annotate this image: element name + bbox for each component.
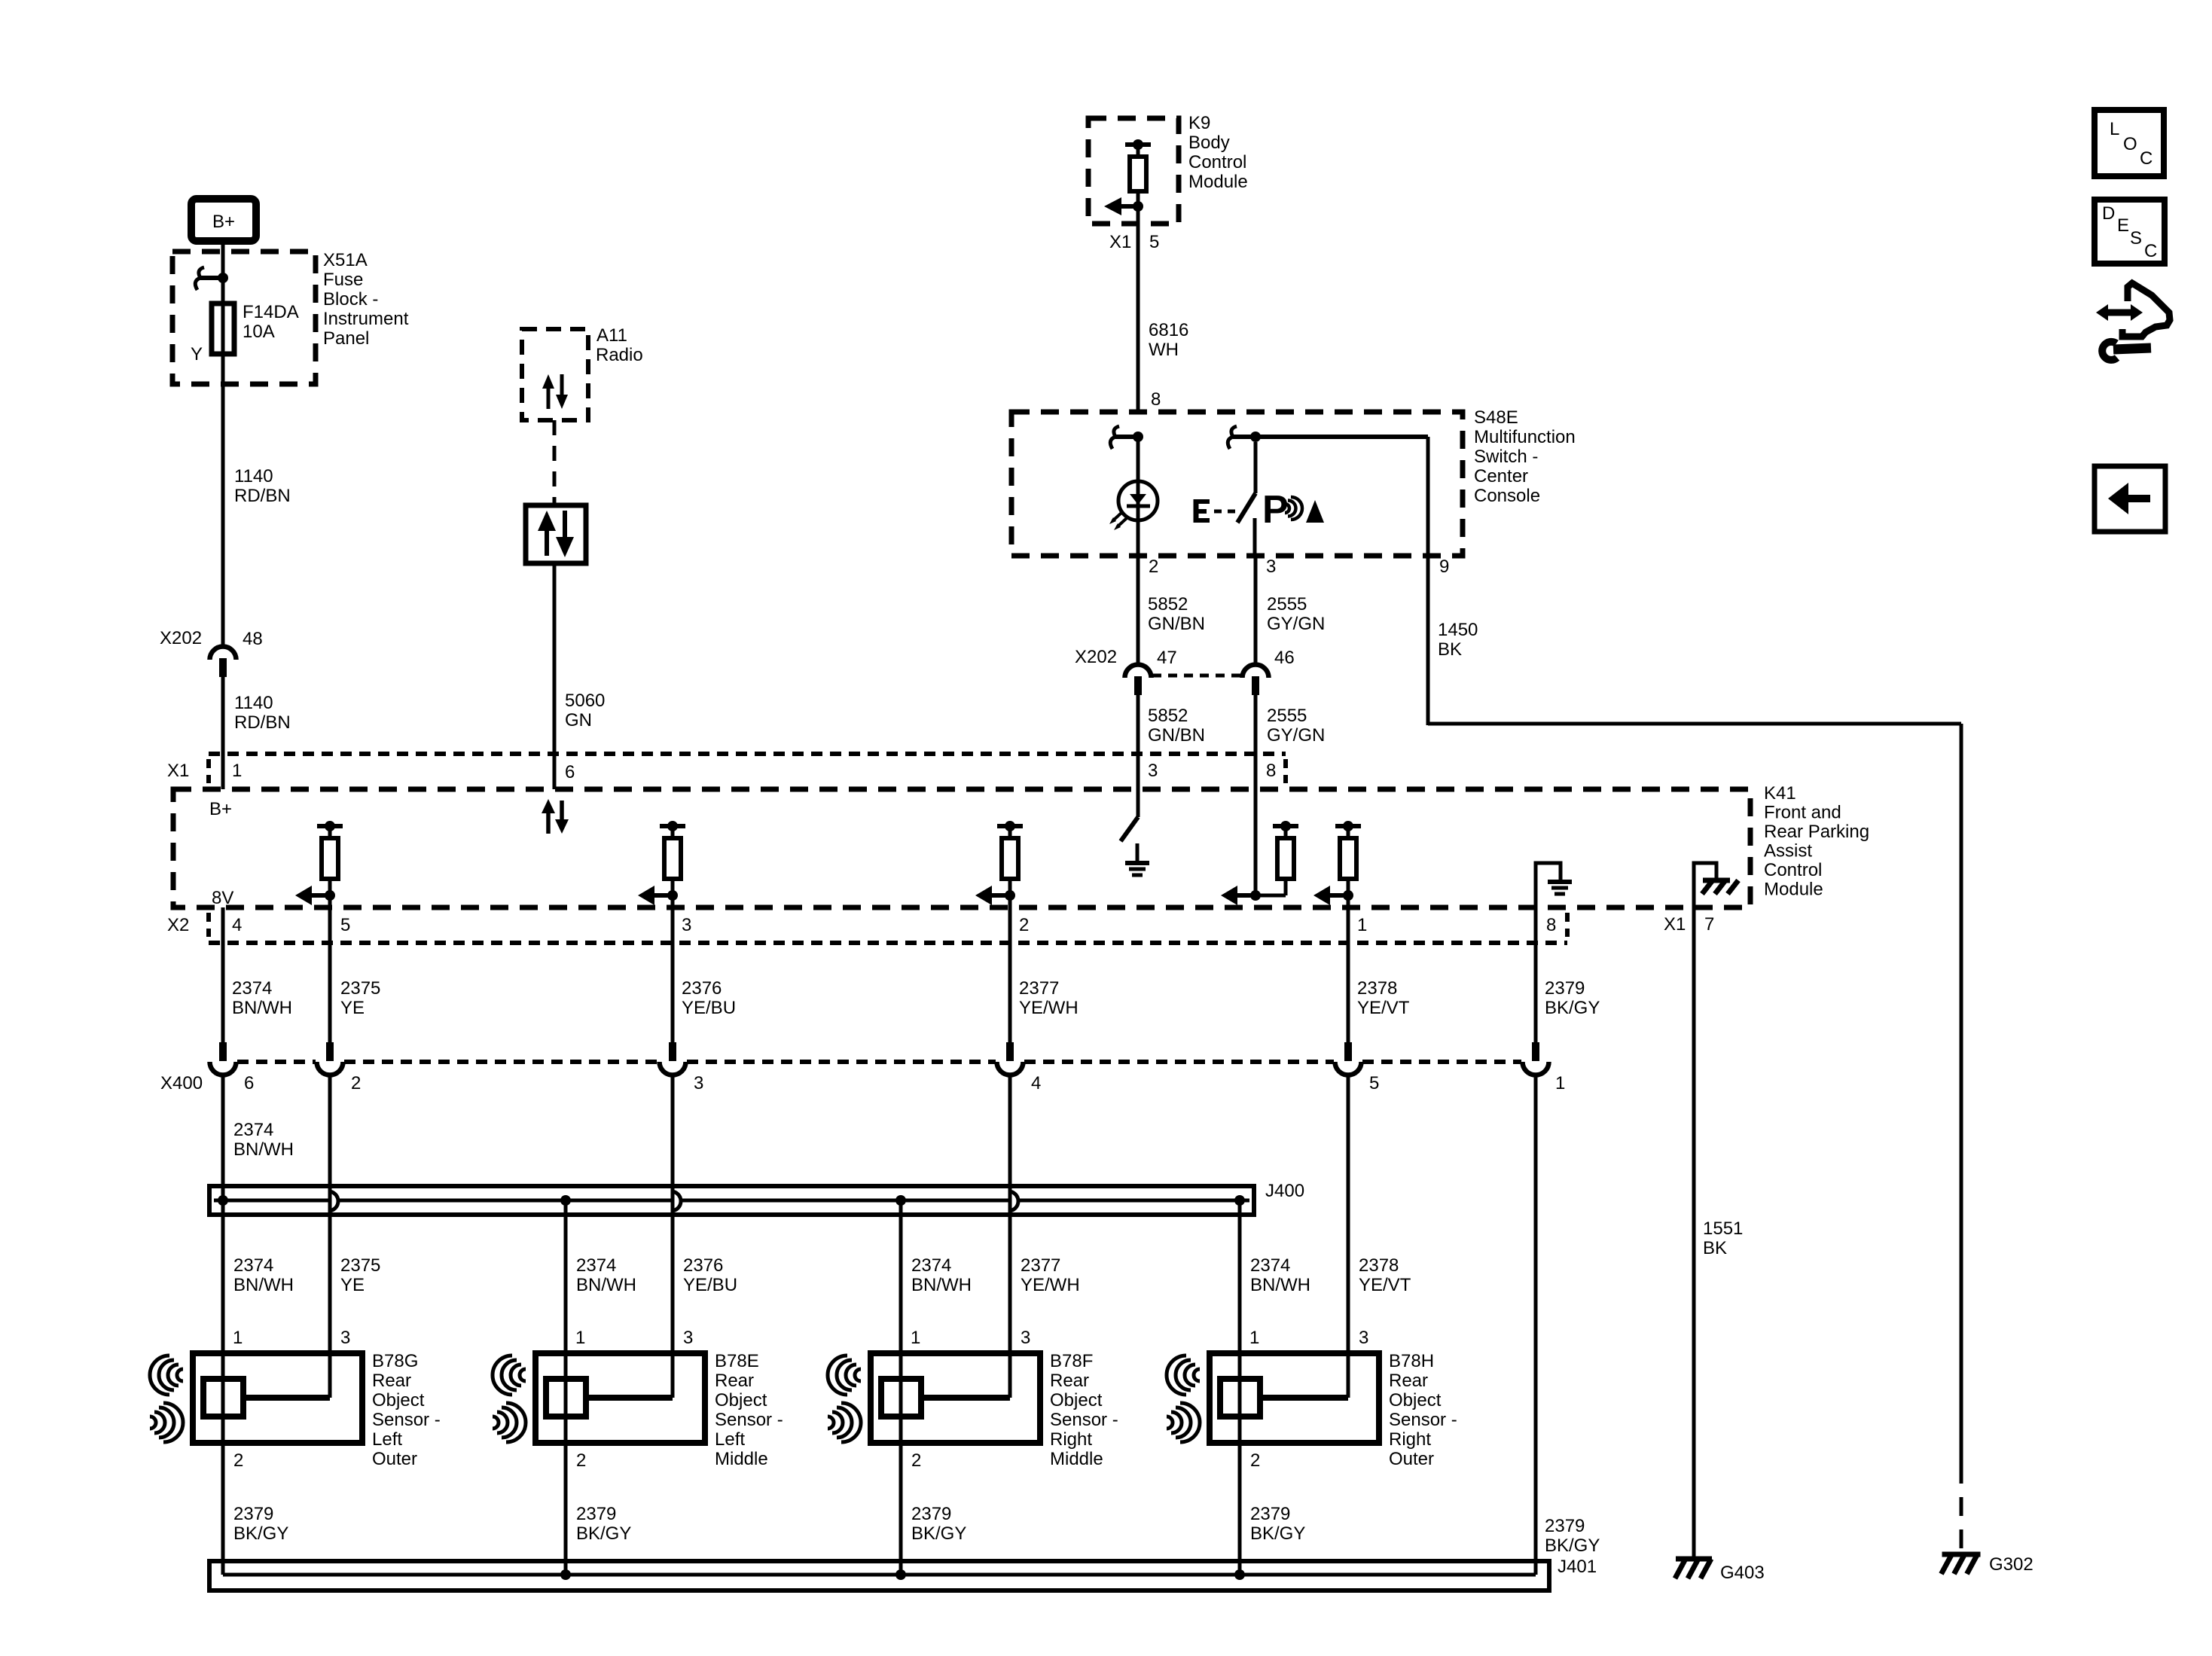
svg-text:Panel: Panel [323, 328, 369, 349]
svg-text:X202: X202 [160, 628, 202, 648]
svg-text:2379: 2379 [576, 1504, 616, 1524]
svg-text:7: 7 [1704, 914, 1714, 935]
svg-text:3: 3 [1266, 557, 1276, 577]
svg-text:2376: 2376 [683, 1255, 723, 1276]
svg-text:4: 4 [1031, 1073, 1041, 1093]
svg-text:5852: 5852 [1148, 594, 1188, 615]
svg-text:5: 5 [340, 915, 350, 935]
svg-text:10A: 10A [243, 322, 275, 342]
svg-text:YE/WH: YE/WH [1019, 998, 1079, 1018]
svg-text:2555: 2555 [1267, 594, 1307, 615]
svg-text:2374: 2374 [233, 1120, 273, 1140]
svg-text:Center: Center [1474, 466, 1528, 486]
svg-text:2374: 2374 [911, 1255, 951, 1276]
svg-text:Instrument: Instrument [323, 309, 409, 329]
svg-text:2: 2 [351, 1073, 361, 1093]
svg-text:BK/GY: BK/GY [233, 1523, 288, 1544]
svg-text:Rear: Rear [1389, 1371, 1428, 1391]
svg-text:1: 1 [1555, 1073, 1565, 1093]
svg-text:S: S [2130, 228, 2142, 249]
svg-text:BK/GY: BK/GY [576, 1523, 631, 1544]
svg-text:Object: Object [715, 1390, 767, 1410]
svg-text:2: 2 [1250, 1450, 1260, 1471]
svg-text:BN/WH: BN/WH [232, 998, 292, 1018]
svg-text:B78F: B78F [1050, 1351, 1093, 1371]
svg-text:Body: Body [1188, 133, 1230, 153]
svg-text:Rear: Rear [715, 1371, 754, 1391]
svg-text:X1: X1 [1109, 232, 1131, 252]
svg-text:BN/WH: BN/WH [576, 1275, 636, 1295]
svg-text:1: 1 [1249, 1328, 1259, 1348]
svg-text:2: 2 [576, 1450, 586, 1471]
svg-text:X400: X400 [160, 1073, 203, 1093]
svg-text:8: 8 [1151, 389, 1161, 410]
svg-text:YE/BU: YE/BU [683, 1275, 737, 1295]
svg-text:Rear: Rear [1050, 1371, 1089, 1391]
svg-text:47: 47 [1157, 648, 1177, 668]
svg-text:6816: 6816 [1149, 320, 1188, 340]
svg-text:1: 1 [232, 761, 242, 781]
svg-text:4: 4 [232, 915, 242, 935]
svg-text:C: C [2140, 148, 2153, 169]
svg-text:BK: BK [1703, 1238, 1727, 1258]
svg-text:RD/BN: RD/BN [234, 712, 291, 733]
svg-text:Y: Y [191, 344, 203, 364]
svg-text:WH: WH [1149, 340, 1179, 360]
svg-text:X51A: X51A [323, 250, 368, 270]
svg-text:3: 3 [682, 915, 691, 935]
svg-text:J401: J401 [1558, 1557, 1597, 1577]
svg-text:2376: 2376 [682, 978, 722, 999]
svg-text:46: 46 [1274, 648, 1295, 668]
svg-text:2555: 2555 [1267, 706, 1307, 726]
svg-text:GY/GN: GY/GN [1267, 725, 1325, 746]
svg-text:2374: 2374 [232, 978, 272, 999]
svg-text:BK: BK [1438, 639, 1462, 660]
svg-text:6: 6 [244, 1073, 254, 1093]
svg-text:Left: Left [715, 1429, 745, 1450]
svg-text:YE/VT: YE/VT [1357, 998, 1410, 1018]
svg-text:2379: 2379 [1250, 1504, 1290, 1524]
svg-text:B78E: B78E [715, 1351, 759, 1371]
svg-text:BN/WH: BN/WH [233, 1275, 294, 1295]
svg-text:YE/BU: YE/BU [682, 998, 736, 1018]
svg-text:G403: G403 [1720, 1563, 1765, 1583]
svg-text:5060: 5060 [565, 691, 605, 711]
svg-text:Object: Object [1389, 1390, 1442, 1410]
svg-text:Left: Left [372, 1429, 402, 1450]
svg-text:Sensor -: Sensor - [1050, 1410, 1118, 1430]
svg-text:F14DA: F14DA [243, 302, 299, 322]
svg-text:Sensor -: Sensor - [372, 1410, 441, 1430]
svg-text:BN/WH: BN/WH [911, 1275, 972, 1295]
svg-text:8V: 8V [212, 888, 233, 908]
svg-text:GN/BN: GN/BN [1148, 725, 1205, 746]
svg-text:Assist: Assist [1764, 841, 1812, 862]
svg-text:1: 1 [575, 1328, 585, 1348]
svg-text:Middle: Middle [715, 1449, 768, 1469]
svg-text:Middle: Middle [1050, 1449, 1103, 1469]
svg-text:K9: K9 [1188, 113, 1210, 133]
svg-text:BK/GY: BK/GY [1250, 1523, 1305, 1544]
svg-text:5: 5 [1369, 1073, 1379, 1093]
svg-text:2378: 2378 [1359, 1255, 1399, 1276]
svg-text:GY/GN: GY/GN [1267, 614, 1325, 634]
svg-text:X202: X202 [1075, 647, 1117, 667]
svg-text:2375: 2375 [340, 1255, 380, 1276]
svg-text:1: 1 [1357, 915, 1367, 935]
svg-text:BK/GY: BK/GY [911, 1523, 966, 1544]
svg-text:Sensor -: Sensor - [715, 1410, 783, 1430]
svg-text:BK/GY: BK/GY [1545, 998, 1600, 1018]
svg-text:Module: Module [1188, 172, 1248, 192]
svg-text:Radio: Radio [596, 345, 643, 365]
svg-text:8: 8 [1266, 761, 1276, 781]
svg-text:K41: K41 [1764, 783, 1796, 804]
svg-text:2374: 2374 [233, 1255, 273, 1276]
svg-text:S48E: S48E [1474, 407, 1518, 428]
svg-text:Front and: Front and [1764, 803, 1841, 823]
svg-text:Rear: Rear [372, 1371, 411, 1391]
svg-text:X1: X1 [1664, 914, 1686, 935]
svg-text:8: 8 [1546, 915, 1556, 935]
svg-text:2377: 2377 [1021, 1255, 1060, 1276]
svg-text:48: 48 [243, 629, 263, 649]
svg-text:GN: GN [565, 710, 592, 730]
svg-text:A11: A11 [596, 325, 627, 346]
svg-text:1: 1 [911, 1328, 920, 1348]
svg-text:2377: 2377 [1019, 978, 1059, 999]
svg-text:J400: J400 [1265, 1181, 1304, 1201]
svg-text:2: 2 [233, 1450, 243, 1471]
svg-text:GN/BN: GN/BN [1148, 614, 1205, 634]
svg-text:Module: Module [1764, 880, 1823, 900]
svg-text:1140: 1140 [234, 466, 273, 486]
svg-text:3: 3 [694, 1073, 703, 1093]
svg-text:Outer: Outer [1389, 1449, 1434, 1469]
svg-text:Right: Right [1389, 1429, 1431, 1450]
svg-text:YE/VT: YE/VT [1359, 1275, 1411, 1295]
svg-text:BN/WH: BN/WH [233, 1139, 294, 1160]
svg-text:1551: 1551 [1703, 1218, 1743, 1239]
svg-text:3: 3 [1021, 1328, 1030, 1348]
svg-text:2379: 2379 [911, 1504, 951, 1524]
svg-text:B78H: B78H [1389, 1351, 1434, 1371]
svg-text:2374: 2374 [576, 1255, 616, 1276]
svg-text:2: 2 [911, 1450, 921, 1471]
svg-text:B78G: B78G [372, 1351, 418, 1371]
svg-text:Block -: Block - [323, 289, 378, 310]
svg-text:X2: X2 [167, 915, 189, 935]
svg-text:2: 2 [1019, 915, 1029, 935]
svg-text:Control: Control [1188, 152, 1246, 172]
svg-text:1140: 1140 [234, 693, 273, 713]
svg-text:2378: 2378 [1357, 978, 1397, 999]
svg-text:YE/WH: YE/WH [1021, 1275, 1080, 1295]
svg-text:5: 5 [1149, 232, 1159, 252]
svg-text:Object: Object [372, 1390, 425, 1410]
svg-text:RD/BN: RD/BN [234, 486, 291, 506]
svg-text:D: D [2102, 203, 2115, 224]
svg-text:5852: 5852 [1148, 706, 1188, 726]
svg-text:L: L [2110, 119, 2119, 139]
svg-text:2375: 2375 [340, 978, 380, 999]
svg-text:Sensor -: Sensor - [1389, 1410, 1457, 1430]
svg-text:2: 2 [1149, 557, 1158, 577]
svg-text:BK/GY: BK/GY [1545, 1536, 1600, 1556]
svg-text:BN/WH: BN/WH [1250, 1275, 1310, 1295]
svg-text:Control: Control [1764, 860, 1822, 880]
svg-text:1450: 1450 [1438, 620, 1478, 640]
svg-text:3: 3 [340, 1328, 350, 1348]
svg-text:3: 3 [1148, 761, 1158, 781]
svg-text:B+: B+ [209, 799, 232, 819]
svg-text:9: 9 [1439, 557, 1449, 577]
svg-text:2379: 2379 [1545, 1516, 1585, 1536]
svg-text:C: C [2144, 241, 2157, 261]
svg-text:O: O [2123, 134, 2137, 154]
svg-text:3: 3 [1359, 1328, 1368, 1348]
svg-text:E: E [2117, 215, 2129, 236]
svg-text:YE: YE [340, 1275, 365, 1295]
svg-text:G302: G302 [1989, 1554, 2034, 1575]
svg-text:1: 1 [233, 1328, 243, 1348]
svg-text:3: 3 [683, 1328, 693, 1348]
svg-text:Switch -: Switch - [1474, 447, 1538, 467]
svg-text:Outer: Outer [372, 1449, 417, 1469]
svg-text:6: 6 [565, 762, 575, 782]
svg-text:2379: 2379 [1545, 978, 1585, 999]
svg-text:Rear Parking: Rear Parking [1764, 822, 1869, 842]
svg-text:2374: 2374 [1250, 1255, 1290, 1276]
svg-text:Console: Console [1474, 486, 1540, 506]
svg-text:Object: Object [1050, 1390, 1103, 1410]
svg-text:B+: B+ [212, 212, 235, 232]
svg-text:P: P [1262, 488, 1289, 532]
svg-text:2379: 2379 [233, 1504, 273, 1524]
svg-text:Fuse: Fuse [323, 270, 363, 290]
svg-text:Multifunction: Multifunction [1474, 427, 1576, 447]
svg-text:Right: Right [1050, 1429, 1092, 1450]
svg-text:X1: X1 [167, 761, 189, 781]
svg-text:YE: YE [340, 998, 365, 1018]
